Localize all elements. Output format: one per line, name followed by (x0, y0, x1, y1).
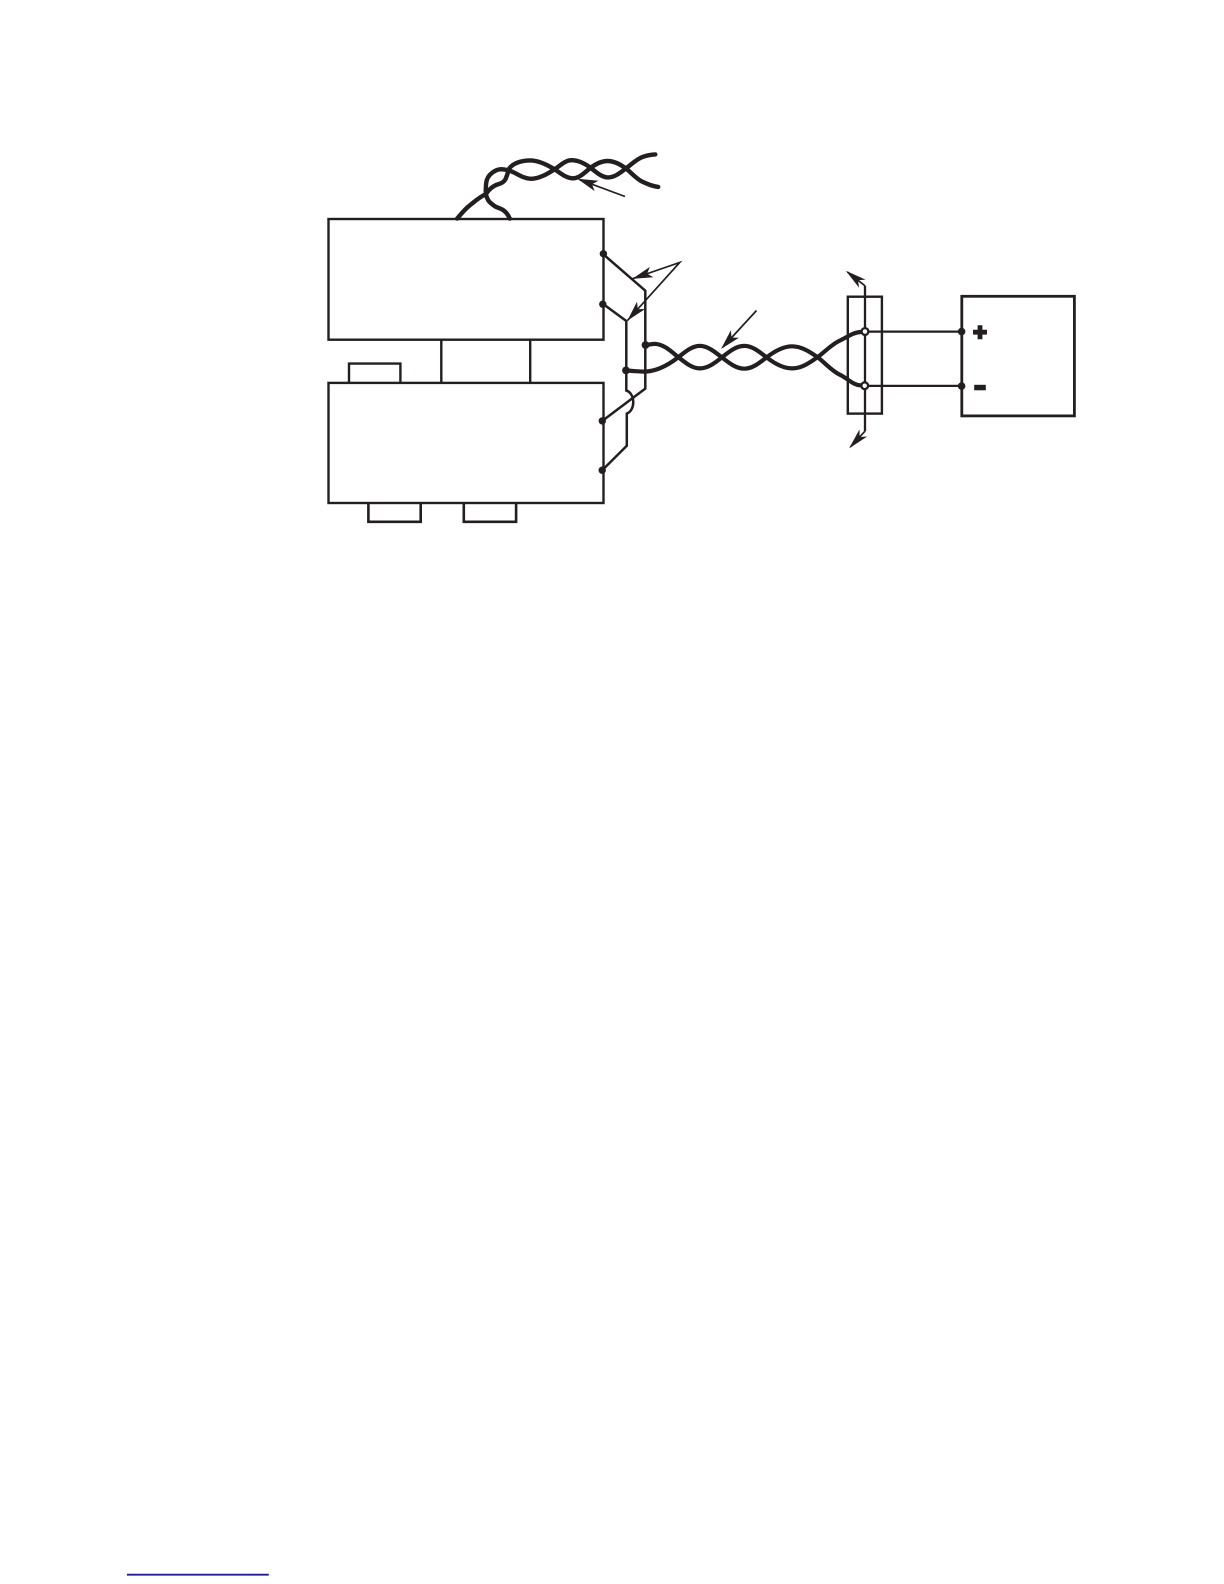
tab on U2 top-left (349, 364, 400, 383)
module box U2 (bottom unit) (329, 383, 604, 503)
junction dot T2 (power pair -) (622, 367, 630, 375)
terminal dot 4 on U2 (599, 467, 606, 474)
twisted pair to external sensor, strand B (486, 154, 656, 218)
terminal block TB1 (848, 297, 882, 414)
arrow up from TB1 (848, 272, 866, 286)
terminal dot 3 on U2 (599, 417, 606, 424)
mounting tab 2 under U2 (464, 503, 516, 522)
mounting tab 1 under U2 (368, 503, 420, 522)
inter-module connector bridge, right line (529, 340, 531, 383)
arrow down from TB1 (851, 431, 866, 447)
terminal dot 2 on U1 (599, 301, 606, 308)
twisted pair to external sensor, strand A (457, 160, 658, 218)
callout arrow to power pair (723, 311, 757, 348)
minus symbol (974, 385, 986, 391)
plus symbol (973, 325, 987, 339)
PS1 positive terminal dot (958, 328, 966, 336)
wire TB1 terminal 2 to power supply - (865, 385, 962, 387)
module box U1 (top unit) (329, 219, 604, 340)
callout arrow to top twisted pair (579, 180, 625, 197)
wire W2: U1 terminal 2 to U2 terminal 4 (hop over W1) (602, 304, 633, 470)
double callout arrows to wires W1 and W2 (627, 263, 679, 321)
bus line through TB1 (864, 286, 866, 431)
twisted power pair strand M2 to terminal block (626, 346, 861, 385)
wire W1: U1 terminal 1 to U2 terminal 3 (602, 254, 645, 421)
junction dot T1 (power pair +) (642, 341, 650, 349)
twisted power pair strand M1 to terminal block (646, 332, 861, 368)
terminal dot 1 on U1 (600, 250, 607, 257)
inter-module connector bridge, left line (440, 340, 442, 383)
PS1 negative terminal dot (958, 382, 966, 390)
wire TB1 terminal 1 to power supply + (865, 330, 962, 332)
TB1 screw terminal 1 (open circle) (862, 328, 869, 335)
TB1 screw terminal 2 (open circle) (861, 382, 868, 389)
power supply box PS1 (962, 296, 1075, 416)
footer rule (blue) (127, 1574, 269, 1576)
